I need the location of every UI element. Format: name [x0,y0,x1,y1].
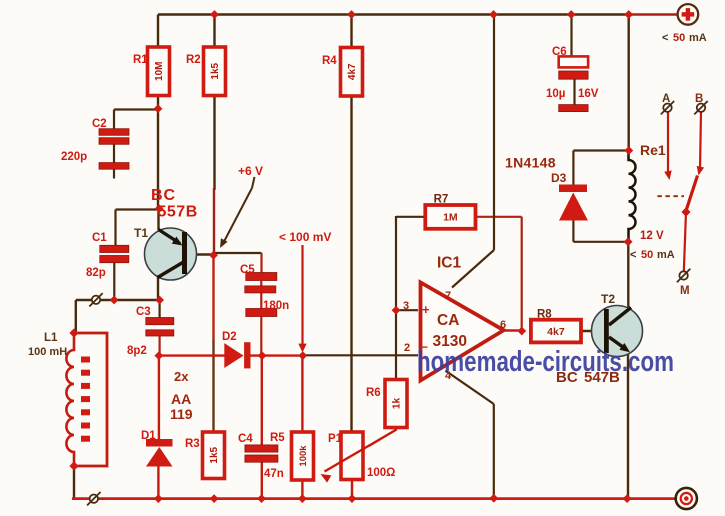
svg-text:L1: L1 [44,332,58,344]
svg-text:12 V: 12 V [640,230,664,242]
svg-text:C6: C6 [552,46,567,58]
svg-text:M: M [680,285,690,297]
svg-text:IC1: IC1 [437,255,462,272]
svg-text:BC: BC [151,187,176,204]
svg-text:50: 50 [673,32,685,44]
svg-text:C2: C2 [92,118,107,130]
svg-text:+: + [422,302,430,317]
svg-text:50: 50 [641,249,653,261]
svg-text:10M: 10M [154,62,165,81]
svg-text:1k: 1k [392,398,403,410]
svg-text:82p: 82p [86,267,106,279]
svg-text:C1: C1 [92,232,107,244]
svg-text:R4: R4 [322,55,337,67]
svg-text:D2: D2 [222,331,237,343]
svg-text:<: < [662,32,668,44]
svg-text:C5: C5 [240,264,255,276]
svg-text:100 mH: 100 mH [28,346,67,358]
svg-text:7: 7 [445,290,451,302]
svg-text:<: < [630,249,636,261]
svg-text:1N4148: 1N4148 [505,155,556,171]
svg-text:R8: R8 [537,309,552,321]
svg-text:B: B [695,93,703,105]
svg-text:4k7: 4k7 [547,326,565,338]
svg-text:3: 3 [403,300,409,312]
svg-text:R1: R1 [133,54,148,66]
svg-text:homemade-circuits.com: homemade-circuits.com [417,346,674,378]
svg-text:220p: 220p [61,151,87,163]
svg-text:C4: C4 [238,433,253,445]
svg-text:119: 119 [170,406,193,422]
svg-text:1k5: 1k5 [209,446,220,463]
svg-text:R3: R3 [185,438,200,450]
svg-text:R2: R2 [186,54,201,66]
svg-text:C3: C3 [136,306,151,318]
svg-text:D3: D3 [551,171,567,185]
svg-text:6: 6 [500,319,506,331]
svg-text:R5: R5 [270,432,285,444]
svg-text:P1: P1 [328,433,343,445]
svg-text:2: 2 [404,342,410,354]
svg-text:1M: 1M [443,212,458,224]
svg-text:16V: 16V [578,88,599,100]
svg-text:A: A [662,93,670,105]
svg-text:10µ: 10µ [546,88,565,100]
svg-text:8p2: 8p2 [127,345,147,357]
svg-text:100k: 100k [298,445,309,467]
svg-text:T2: T2 [601,292,615,306]
svg-text:R6: R6 [366,387,381,399]
svg-text:Re1: Re1 [640,142,666,158]
svg-text:1k5: 1k5 [210,62,221,79]
svg-text:557B: 557B [158,204,198,221]
svg-text:mA: mA [689,32,707,44]
svg-text:100Ω: 100Ω [367,467,395,479]
svg-text:D1: D1 [141,430,156,442]
svg-text:mA: mA [657,249,675,261]
svg-text:47n: 47n [264,468,284,480]
svg-text:180n: 180n [263,300,289,312]
svg-text:AA: AA [171,391,191,407]
svg-text:CA: CA [437,312,459,329]
svg-text:T1: T1 [134,226,148,240]
svg-text:2x: 2x [174,369,189,384]
svg-text:4k7: 4k7 [347,63,358,80]
svg-text:+6 V: +6 V [238,164,263,178]
svg-text:< 100 mV: < 100 mV [279,230,331,244]
svg-text:R7: R7 [434,194,449,206]
